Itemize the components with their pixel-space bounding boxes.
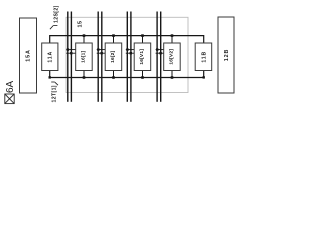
svg-text:15A: 15A — [26, 49, 32, 62]
leader tick for 12S[2] — [53, 24, 57, 26]
station symbol (box with X) — [5, 94, 14, 104]
wire bay 16[V1] bottom — [142, 71, 144, 78]
svg-text:16[V1]: 16[V1] — [139, 49, 145, 65]
svg-text:16[1]: 16[1] — [81, 50, 87, 62]
breaker box 16[V2] — [164, 43, 181, 71]
wire bay 16[V2] top — [171, 36, 173, 43]
svg-text:11B: 11B — [201, 51, 207, 63]
svg-text:16[V2]: 16[V2] — [169, 49, 175, 65]
bay box 15A — [20, 18, 37, 93]
wire bay 16[2] bottom — [113, 71, 115, 78]
top rail wire — [50, 36, 204, 43]
svg-text:11A: 11A — [48, 51, 54, 63]
bay box 11B — [195, 43, 212, 71]
busbar pair B3 — [127, 12, 131, 102]
leader tick for 12T[1] — [51, 81, 55, 83]
svg-text:12T[1]: 12T[1] — [51, 85, 57, 102]
wire bay 16[1] top — [83, 36, 85, 43]
stub dots bay 16[V1] — [126, 48, 132, 54]
wire bay 16[1] bottom — [83, 71, 85, 78]
stub dots bay 16[2] — [97, 48, 103, 54]
bay box 12B — [218, 17, 234, 93]
svg-text:6A: 6A — [5, 80, 16, 93]
svg-text:12S[2]: 12S[2] — [53, 5, 59, 23]
busbar pair B2 — [98, 12, 102, 102]
breaker box 16[2] — [105, 43, 122, 71]
stub wires bay 16[1] — [66, 50, 75, 54]
breaker box 16[1] — [76, 43, 93, 71]
svg-text:12B: 12B — [224, 49, 230, 62]
stub wires bay 16[V2] — [156, 50, 164, 54]
svg-text:16[2]: 16[2] — [110, 50, 116, 62]
stub wires bay 16[2] — [97, 50, 106, 54]
breaker box 16[V1] — [134, 43, 151, 71]
junction dots on rails — [49, 34, 205, 78]
stub wires bay 16[V1] — [126, 50, 134, 54]
wire bay 16[2] top — [113, 36, 115, 43]
busbar pair B1 — [68, 12, 72, 102]
leader diagonal for 12T[1] — [55, 82, 58, 85]
wire bay 16[V2] bottom — [171, 71, 173, 78]
bottom rail wire — [50, 71, 204, 78]
leader diagonal for 12S[2] — [50, 26, 53, 30]
wire bay 16[V1] top — [142, 36, 144, 43]
bay box 11A — [42, 43, 58, 71]
stub dots bay 16[V2] — [156, 48, 162, 54]
stub dots bay 16[1] — [67, 48, 73, 54]
svg-text:15: 15 — [78, 21, 84, 28]
busbar pair B4 — [157, 12, 161, 102]
boundary box (light gray enclosure) — [66, 17, 188, 92]
